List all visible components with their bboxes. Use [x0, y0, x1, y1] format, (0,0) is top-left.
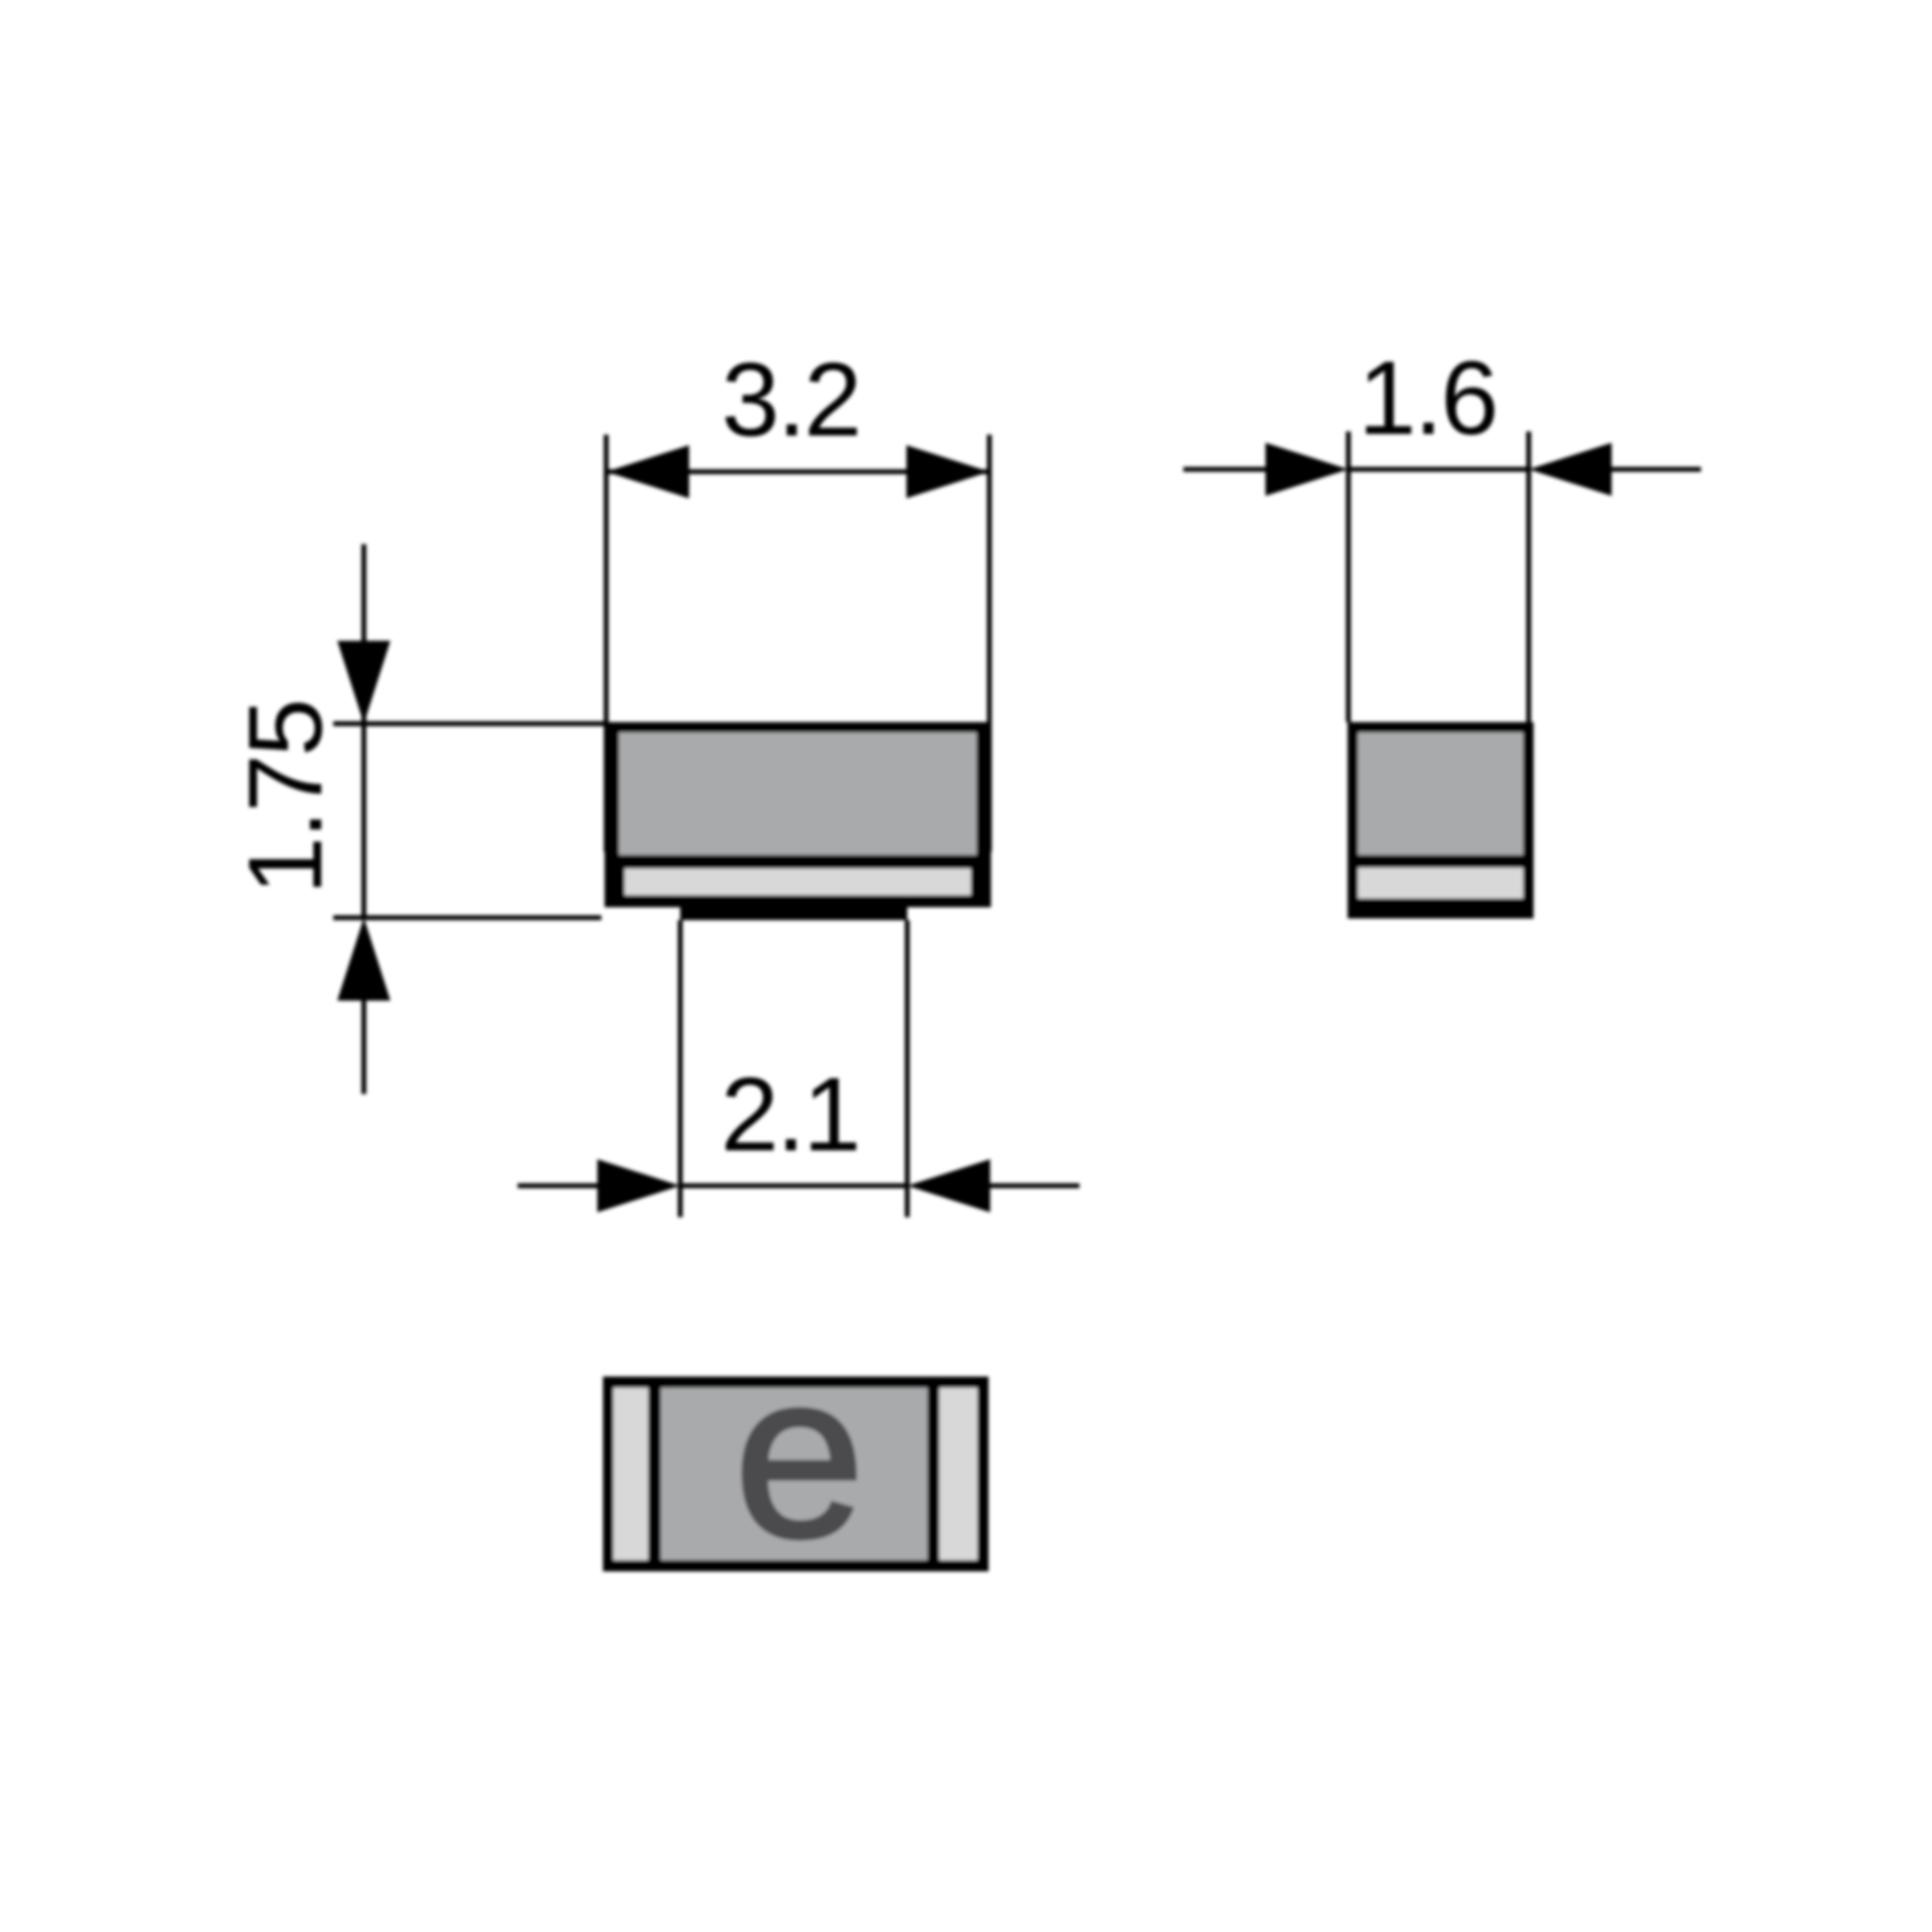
front view outline (black) — [605, 722, 991, 907]
dimension 1.6 arrow right — [1529, 443, 1612, 496]
side view solder strip (light gray) — [1358, 868, 1523, 898]
dimension 1.6 arrow left — [1265, 443, 1348, 496]
dimension 1.75 extension line top — [333, 721, 606, 726]
svg-text:1.6: 1.6 — [1358, 339, 1496, 456]
front view solder strip (light gray) — [625, 869, 971, 895]
side view outline (black) — [1348, 722, 1534, 919]
dimension 2.1 arrow left — [597, 1159, 680, 1212]
dimension 2.1 tail right — [988, 1183, 1080, 1188]
dimension 3.2 extension line left — [604, 435, 609, 852]
svg-text:1.75: 1.75 — [226, 700, 344, 894]
bottom view outline (black) — [603, 1377, 989, 1571]
dimension 3.2 extension line right — [987, 435, 992, 852]
dimension 1.6 line — [1348, 467, 1529, 472]
svg-text:e: e — [734, 1323, 865, 1586]
bottom view center face (gray) — [661, 1388, 927, 1560]
dimension 1.6 extension line left — [1346, 431, 1351, 722]
dimension 1.75 tail bottom — [361, 1001, 366, 1094]
dimension 2.1 arrow right — [907, 1159, 990, 1212]
dimension 1.75 extension line bottom — [333, 915, 601, 920]
dimension 1.75 arrow top — [337, 641, 390, 724]
dimension 1.75 line — [361, 544, 366, 918]
bottom view right terminal (light gray) — [939, 1388, 977, 1560]
svg-text:3.2: 3.2 — [721, 341, 860, 458]
bottom view left terminal (light gray) — [613, 1388, 648, 1560]
dimension 1.6 extension line right — [1526, 431, 1531, 722]
side view body (gray) — [1358, 733, 1523, 855]
dimension 1.6 tail left — [1183, 467, 1268, 472]
dimension 1.6 tail right — [1609, 467, 1701, 472]
svg-text:2.1: 2.1 — [720, 1055, 859, 1173]
dimension 2.1 tail left — [518, 1183, 600, 1188]
front view bottom protrusion — [680, 902, 907, 920]
dimension 2.1 extension line right — [905, 920, 910, 1217]
dimension 2.1 extension line left — [678, 920, 683, 1217]
front view body (gray) — [619, 733, 976, 855]
dimension 3.2 line — [606, 469, 989, 474]
dimension 2.1 line — [680, 1183, 907, 1188]
dimension 3.2 arrow left — [606, 445, 689, 498]
dimension 1.75 arrow bottom — [337, 918, 390, 1001]
dimension 3.2 arrow right — [906, 445, 989, 498]
